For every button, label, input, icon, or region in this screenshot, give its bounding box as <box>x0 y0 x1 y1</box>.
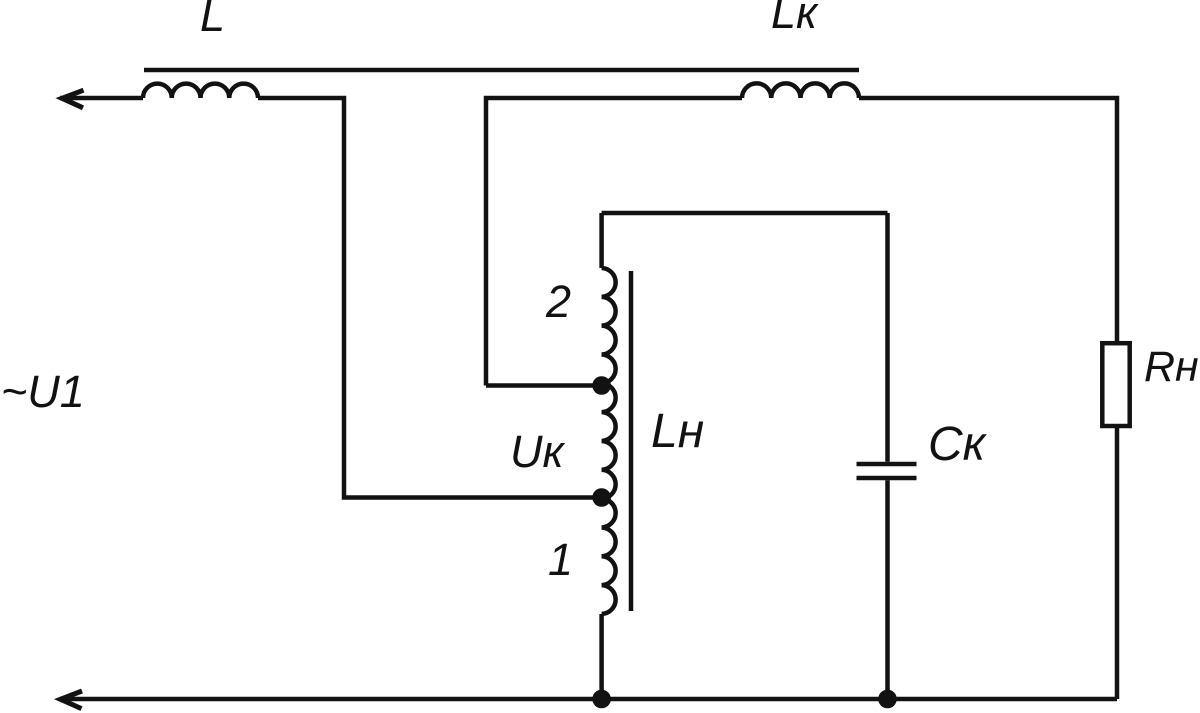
svg-text:Rн: Rн <box>1144 343 1199 391</box>
svg-text:Cк: Cк <box>928 418 988 471</box>
svg-text:Lк: Lк <box>771 0 819 38</box>
svg-text:Uк: Uк <box>510 426 565 477</box>
svg-text:1: 1 <box>548 534 573 585</box>
svg-text:2: 2 <box>545 276 571 327</box>
svg-text:Lн: Lн <box>651 405 704 458</box>
svg-text:L: L <box>200 0 225 41</box>
svg-text:~U1: ~U1 <box>1 366 85 417</box>
